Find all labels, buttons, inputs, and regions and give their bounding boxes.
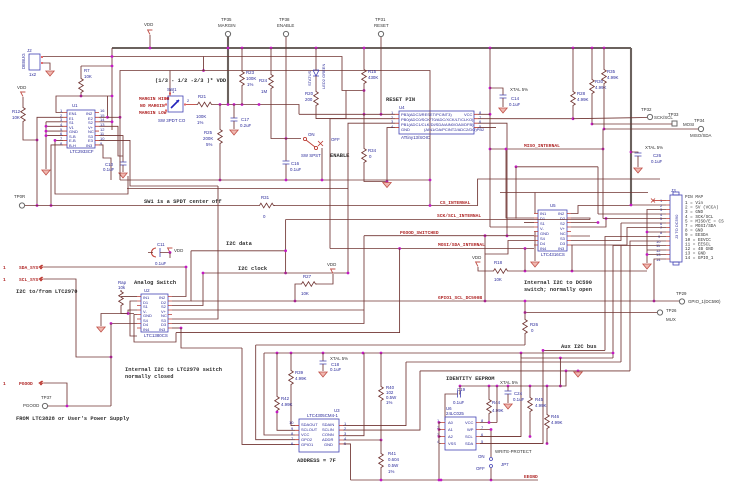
svg-text:100K: 100K [246, 76, 256, 81]
svg-text:TP32: TP32 [641, 107, 652, 112]
svg-text:MARGIN HIGH: MARGIN HIGH [139, 96, 170, 102]
svg-text:R41: R41 [388, 451, 397, 456]
svg-text:JP7: JP7 [501, 462, 509, 467]
svg-text:A1: A1 [448, 427, 454, 432]
svg-text:200K: 200K [203, 136, 213, 141]
resistor R23 [241, 47, 244, 50]
svg-text:MUX: MUX [666, 317, 676, 322]
svg-text:R25: R25 [204, 130, 213, 135]
wire EEVCC staircase [420, 370, 630, 372]
svg-text:C24: C24 [514, 391, 523, 396]
wire J3 pin14 GPIO [654, 259, 666, 301]
svg-text:R35: R35 [607, 69, 616, 74]
svg-text:GPIO1: GPIO1 [301, 442, 314, 447]
wire U1 left pins to gnd rail [46, 122, 63, 169]
svg-text:XTAL 5%: XTAL 5% [500, 380, 518, 385]
svg-text:4.99K: 4.99K [595, 85, 607, 90]
svg-text:MARGIN: MARGIN [218, 23, 236, 28]
wire U5 section line [500, 193, 648, 214]
wire L1 left down to U3 [256, 345, 295, 440]
svg-text:MARGIN LOW: MARGIN LOW [139, 110, 167, 116]
svg-text:R26: R26 [530, 322, 539, 327]
svg-text:IN4: IN4 [540, 246, 547, 251]
wire U3 SDAIN riser [406, 361, 621, 363]
resistor R12 [22, 97, 24, 106]
wire J3 pin11 EESCL [613, 246, 666, 359]
resistor R39 [290, 353, 292, 369]
capacitor C19 [459, 385, 462, 388]
svg-text:Analog Switch: Analog Switch [134, 280, 176, 286]
svg-text:R31: R31 [261, 195, 270, 200]
svg-text:PIN MAP: PIN MAP [685, 195, 703, 200]
svg-text:0: 0 [531, 328, 534, 333]
ground [634, 168, 642, 173]
svg-text:IN3: IN3 [86, 143, 93, 148]
svg-text:SCL: SCL [465, 434, 474, 439]
capacitor C17 [231, 118, 238, 121]
wire U1 pin8 down [51, 145, 63, 206]
svg-text:MISO/SDA: MISO/SDA [690, 133, 712, 138]
svg-text:14: 14 [656, 257, 661, 262]
svg-text:4.99K: 4.99K [607, 75, 619, 80]
svg-text:1: 1 [3, 381, 6, 387]
svg-text:0.1uF: 0.1uF [513, 397, 525, 402]
svg-text:1%: 1% [197, 120, 203, 125]
svg-text:U4: U4 [399, 105, 405, 110]
svg-text:4.99K: 4.99K [535, 403, 547, 408]
svg-text:R12: R12 [12, 109, 21, 114]
wire sw1 out [186, 104, 196, 106]
testpoint TP26 [525, 312, 657, 314]
svg-text:R34: R34 [368, 148, 377, 153]
wire J3 pin6 [621, 222, 666, 224]
svg-text:1%: 1% [247, 82, 253, 87]
svg-text:C14: C14 [511, 96, 520, 101]
svg-text:0.1uF: 0.1uF [290, 167, 302, 172]
svg-text:ATtiny13/SOIC: ATtiny13/SOIC [401, 135, 430, 140]
wire bus left corner vertical [111, 48, 113, 130]
svg-text:R18: R18 [494, 260, 503, 265]
svg-text:ENABLE: ENABLE [330, 153, 350, 159]
svg-text:14 = GPIO_1: 14 = GPIO_1 [685, 256, 714, 261]
svg-text:10K: 10K [301, 291, 309, 296]
svg-text:TP26: TP26 [666, 308, 677, 313]
ground aux [577, 371, 579, 372]
svg-text:GPIO1_SCL_DC590B: GPIO1_SCL_DC590B [438, 295, 482, 301]
svg-text:ON: ON [478, 454, 485, 459]
svg-text:GPIO_1(DC590): GPIO_1(DC590) [688, 299, 721, 304]
svg-text:SW SPST: SW SPST [301, 153, 321, 158]
svg-text:0.604: 0.604 [388, 457, 400, 462]
svg-text:5%: 5% [206, 142, 212, 147]
ground [46, 71, 54, 76]
svg-text:1M: 1M [261, 89, 267, 94]
wire section border [120, 71, 430, 206]
ground [499, 108, 507, 113]
svg-text:IN4: IN4 [143, 327, 150, 332]
svg-text:SW1 is a SPDT center off: SW1 is a SPDT center off [144, 199, 222, 205]
svg-text:0.1uF: 0.1uF [651, 159, 663, 164]
svg-text:VCC: VCC [465, 420, 474, 425]
svg-text:OFF: OFF [476, 466, 485, 471]
wire vdd stub [169, 253, 171, 259]
wire EESDA branch [480, 350, 543, 443]
ground U5 [534, 232, 536, 262]
resistor R7 [80, 66, 82, 77]
svg-text:R42: R42 [281, 396, 290, 401]
svg-text:ON: ON [308, 132, 315, 137]
svg-text:0: 0 [369, 154, 372, 159]
svg-text:CS_INTERNAL: CS_INTERNAL [440, 200, 471, 206]
svg-text:10k: 10k [118, 285, 126, 290]
wire pin2 pin3 to left [330, 119, 395, 249]
capacitor C16 [285, 139, 287, 181]
wire EESCL branch [520, 352, 523, 355]
svg-text:R15: R15 [368, 69, 377, 74]
svg-text:LTC4316CS: LTC4316CS [541, 252, 565, 257]
svg-text:NO MARGIN: NO MARGIN [140, 103, 165, 109]
svg-text:XTAL 5%: XTAL 5% [645, 145, 663, 150]
resistor R45 [529, 385, 532, 388]
wires U6 right [480, 422, 497, 424]
svg-text:XTAL 5%: XTAL 5% [330, 356, 348, 361]
wire internal sck [516, 166, 598, 168]
svg-text:LTC2933CF: LTC2933CF [70, 149, 94, 154]
svg-text:U2: U2 [144, 288, 150, 293]
svg-text:1x2: 1x2 [29, 72, 37, 77]
svg-text:10K: 10K [84, 74, 92, 79]
wires U5 left [571, 206, 631, 214]
svg-text:SDA: SDA [465, 441, 474, 446]
svg-text:B-H: B-H [69, 143, 76, 148]
wire VDD bus thick [112, 47, 631, 49]
wire U1 pin1 loop [56, 96, 112, 113]
svg-text:TP31: TP31 [375, 17, 386, 22]
svg-text:10K: 10K [12, 115, 20, 120]
svg-text:normally closed: normally closed [125, 374, 174, 380]
svg-text:GND: GND [324, 442, 333, 447]
wire L2 rail VCC [264, 352, 613, 354]
wire [285, 37, 287, 139]
svg-text:I2C to/from LTC2970: I2C to/from LTC2970 [16, 289, 77, 295]
wire margin high riser [202, 69, 205, 72]
wire EESDA staircase [543, 349, 605, 351]
svg-text:TP38: TP38 [279, 17, 290, 22]
ground J3 [643, 264, 651, 269]
svg-text:U1: U1 [72, 103, 78, 108]
svg-text:4.99K: 4.99K [281, 402, 293, 407]
svg-text:ADDRESS = 7F: ADDRESS = 7F [297, 458, 336, 464]
resistor R46 [546, 385, 549, 388]
svg-text:C11: C11 [157, 242, 165, 247]
svg-text:VDD: VDD [472, 255, 481, 260]
svg-text:R39: R39 [295, 370, 304, 375]
svg-text:0: 0 [263, 214, 266, 219]
svg-text:TP33: TP33 [668, 112, 679, 117]
svg-text:0.1uF: 0.1uF [509, 102, 521, 107]
wire J3 pin12 pin13 gnd [647, 249, 666, 251]
wire U4 right pins [478, 113, 490, 115]
svg-text:C17: C17 [241, 117, 250, 122]
wire J2 pin2 to gnd [43, 63, 50, 70]
svg-text:WP: WP [467, 427, 474, 432]
svg-text:XTAL 5%: XTAL 5% [510, 87, 528, 92]
wires U3 right [343, 353, 364, 436]
wire sw spst right down [321, 148, 323, 180]
svg-text:4.99K: 4.99K [577, 97, 589, 102]
wire after R21 [213, 105, 299, 115]
wires U2 left [121, 296, 137, 298]
svg-text:8: 8 [660, 230, 663, 235]
svg-text:TP37: TP37 [41, 395, 52, 400]
svg-text:Internal I2C to DC590: Internal I2C to DC590 [524, 280, 592, 286]
wire pin1 [299, 113, 395, 115]
svg-text:VDD: VDD [17, 85, 26, 90]
svg-text:10: 10 [289, 420, 294, 425]
svg-text:OFF: OFF [331, 137, 340, 142]
ground [230, 130, 238, 135]
svg-text:IN3: IN3 [558, 246, 565, 251]
resistor R15 on reset [363, 48, 365, 68]
ground [383, 183, 391, 188]
svg-text:A2: A2 [448, 434, 454, 439]
svg-text:SW 3PDT CO: SW 3PDT CO [158, 118, 186, 123]
wire thick margin [227, 37, 229, 105]
wire J3 pin3 gnd [647, 210, 666, 264]
svg-text:PGOOD_SWITCHED: PGOOD_SWITCHED [400, 230, 439, 236]
svg-text:SCL_SYS: SCL_SYS [19, 277, 39, 283]
svg-text:LED2 GREEN: LED2 GREEN [321, 64, 326, 89]
wire R7 top [81, 65, 112, 67]
wire L2 left down to U3 [264, 353, 295, 435]
svg-text:0.5W: 0.5W [388, 463, 399, 468]
svg-text:R20: R20 [305, 91, 314, 96]
svg-text:J3 TO DC590: J3 TO DC590 [674, 214, 679, 239]
svg-text:R24: R24 [259, 78, 268, 83]
svg-text:STATUS: STATUS [307, 70, 312, 86]
wires U2 right [172, 267, 186, 297]
wire U1 right pins [99, 96, 108, 117]
svg-text:SDA_SYS: SDA_SYS [19, 265, 39, 271]
wire mid rail [127, 188, 348, 190]
svg-text:6: 6 [291, 441, 294, 446]
wire U1 pin2 down [37, 117, 63, 205]
svg-text:EEGND: EEGND [524, 474, 538, 480]
svg-text:VDD: VDD [327, 262, 336, 267]
svg-text:FROM LTC3828 or User's Power: FROM LTC3828 or User's Power Supply [16, 416, 130, 422]
svg-text:24LC025: 24LC025 [446, 411, 464, 416]
svg-text:4.99K: 4.99K [295, 376, 307, 381]
svg-text:WRITE-PROTECT: WRITE-PROTECT [495, 449, 532, 454]
wire J3 pin8 gnd [647, 231, 666, 233]
svg-text:I2C data: I2C data [226, 241, 253, 247]
svg-text:MOSI/SDA_INTERNAL: MOSI/SDA_INTERNAL [438, 242, 485, 248]
svg-text:MISO_INTERNAL: MISO_INTERNAL [524, 143, 560, 149]
svg-text:430K: 430K [368, 75, 378, 80]
svg-text:1%: 1% [388, 469, 394, 474]
svg-text:(1/3 - 1/2 -2/3 )* VDD: (1/3 - 1/2 -2/3 )* VDD [155, 78, 227, 84]
wire J2 pin1 long [43, 57, 364, 91]
svg-text:IDENTITY EEPROM: IDENTITY EEPROM [446, 376, 495, 382]
wire L1 rail [256, 344, 525, 346]
svg-text:GND: GND [401, 127, 410, 132]
wires U6 left tied [439, 423, 441, 481]
resistor R42 [276, 353, 278, 395]
svg-text:C19: C19 [457, 387, 466, 392]
svg-text:VDD: VDD [144, 22, 153, 27]
svg-text:TP0R: TP0R [14, 194, 25, 199]
svg-text:TP34: TP34 [694, 118, 705, 123]
svg-text:J2: J2 [27, 48, 32, 53]
ground [42, 170, 50, 175]
svg-text:1: 1 [3, 265, 6, 271]
svg-text:R44: R44 [492, 400, 501, 405]
wire EESCL staircase [521, 353, 613, 358]
svg-text:PGOOD: PGOOD [19, 381, 33, 387]
svg-text:R7: R7 [84, 68, 90, 73]
svg-text:switch; normally open: switch; normally open [524, 287, 592, 293]
wire bottom rail [120, 179, 430, 181]
svg-text:2: 2 [187, 98, 190, 103]
svg-text:RESET PIN: RESET PIN [386, 97, 415, 103]
wire J3 pin2 VCC [631, 204, 666, 206]
svg-text:VDD: VDD [174, 248, 183, 253]
svg-text:A0: A0 [448, 420, 454, 425]
wire [380, 37, 382, 114]
resistor R41 [380, 440, 382, 452]
wire J3 pin5 MISO [603, 218, 666, 220]
capacitor C14 [489, 47, 492, 50]
svg-text:R23: R23 [246, 70, 255, 75]
wire J3 pin4 SCK [598, 213, 666, 215]
svg-text:R28: R28 [577, 91, 586, 96]
svg-text:ENABLE: ENABLE [277, 23, 294, 28]
svg-text:4: 4 [391, 124, 394, 129]
wire EEVCC down [460, 371, 566, 386]
wire J3 pin1 noconnect [653, 200, 666, 202]
svg-text:C26: C26 [653, 153, 662, 158]
svg-text:4.99K: 4.99K [551, 420, 563, 425]
svg-text:IN3: IN3 [159, 327, 166, 332]
pin stubs left [63, 113, 67, 145]
resistor R44 [496, 385, 499, 388]
svg-text:R46: R46 [551, 414, 560, 419]
svg-text:4.99K: 4.99K [492, 408, 504, 413]
svg-text:LTC4305CM4-1: LTC4305CM4-1 [307, 413, 338, 418]
svg-text:100K: 100K [196, 114, 206, 119]
svg-text:R45: R45 [535, 397, 544, 402]
bottom rail [351, 479, 539, 481]
wire U3 SCLIN riser [343, 371, 420, 430]
svg-text:I2C clock: I2C clock [238, 266, 268, 272]
wire [149, 35, 151, 48]
svg-text:SCK/SCL_INTERNAL: SCK/SCL_INTERNAL [437, 213, 481, 219]
power VDD c11 [168, 248, 173, 253]
ground [119, 173, 127, 178]
wires U5 right [571, 218, 590, 220]
svg-text:0.1uF: 0.1uF [453, 400, 465, 405]
wire pin4 gnd [387, 128, 395, 182]
pin stubs right [95, 113, 99, 145]
svg-text:0.1uF: 0.1uF [330, 367, 342, 372]
svg-text:Aux I2C bus: Aux I2C bus [561, 344, 597, 350]
wire J3 pin10 EEVCC [630, 241, 666, 371]
svg-text:RESET: RESET [374, 23, 389, 28]
resistor R24 [270, 47, 273, 50]
svg-text:R21: R21 [198, 94, 207, 99]
svg-text:MOSI: MOSI [683, 122, 694, 127]
svg-text:0.1uF: 0.1uF [155, 261, 167, 266]
svg-text:1%: 1% [386, 400, 392, 405]
svg-text:Internal I2C to LTC2970 switch: Internal I2C to LTC2970 switch [125, 367, 222, 373]
svg-text:U5: U5 [550, 203, 556, 208]
wire U1 pin7 [55, 140, 128, 194]
resistor R40 [380, 353, 382, 385]
svg-text:TP35: TP35 [221, 17, 232, 22]
svg-text:1: 1 [3, 277, 6, 283]
svg-text:VSS: VSS [448, 441, 456, 446]
svg-text:200: 200 [305, 97, 313, 102]
svg-text:PGOOD: PGOOD [23, 403, 39, 408]
pins [395, 114, 399, 127]
svg-text:0.1uF: 0.1uF [103, 167, 115, 172]
svg-text:0.2uF: 0.2uF [240, 123, 252, 128]
svg-text:LTC1380CS: LTC1380CS [144, 333, 168, 338]
wire TP0R long / CS_INTERNAL [25, 179, 660, 206]
wire J3 pin7 MOSI [571, 228, 666, 246]
wire J3 pin9 EESDA [605, 237, 666, 351]
svg-text:R27: R27 [303, 274, 312, 279]
svg-text:DEBUG: DEBUG [21, 53, 26, 69]
wire MISO down to J3 pin5 [602, 129, 604, 219]
svg-text:C16: C16 [291, 161, 300, 166]
svg-text:TP29: TP29 [676, 291, 687, 296]
svg-text:10K: 10K [494, 277, 502, 282]
wire bus right vertical [630, 48, 632, 205]
